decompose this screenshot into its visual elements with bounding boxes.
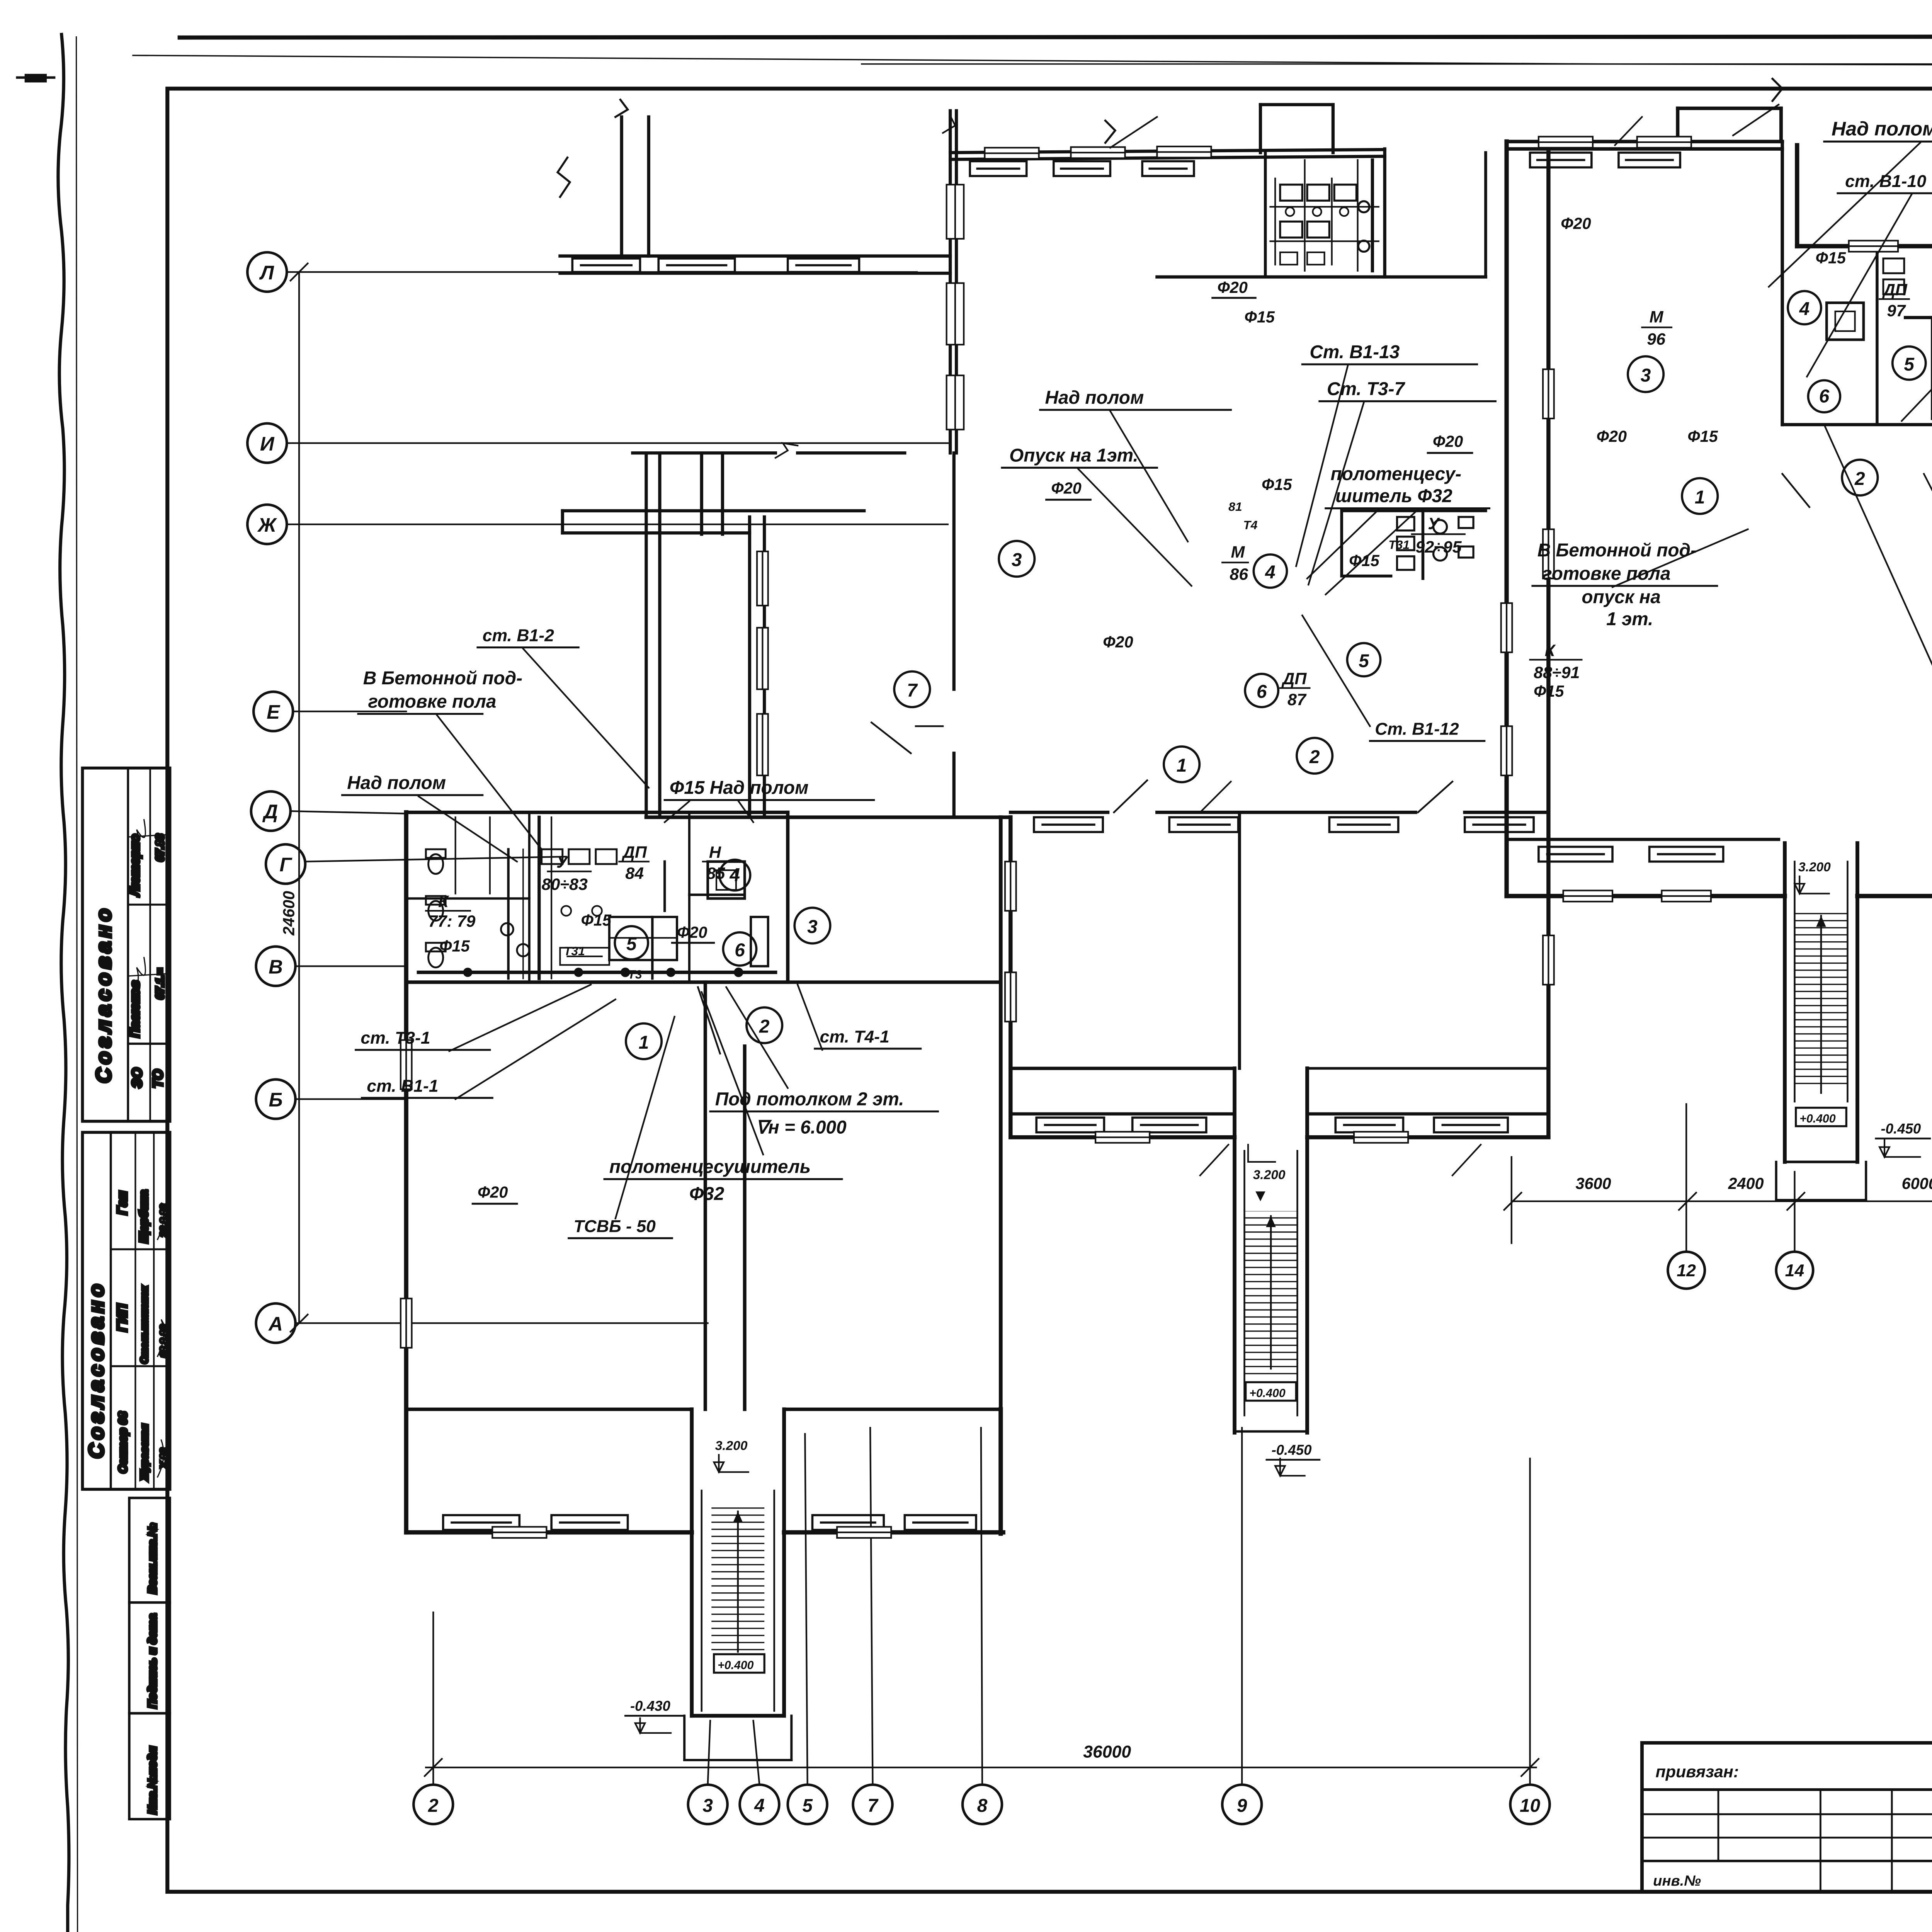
svg-text:1 эт.: 1 эт. bbox=[1606, 609, 1653, 629]
svg-text:готовке пола: готовке пола bbox=[368, 692, 496, 712]
svg-text:привязан:: привязан: bbox=[1656, 1763, 1739, 1781]
svg-text:81: 81 bbox=[1228, 500, 1242, 514]
svg-text:Ж: Ж bbox=[257, 514, 277, 536]
svg-text:∇н = 6.000: ∇н = 6.000 bbox=[756, 1117, 847, 1138]
svg-text:96: 96 bbox=[1647, 330, 1666, 349]
svg-text:Лютерно: Лютерно bbox=[128, 834, 142, 897]
svg-text:18.8.83: 18.8.83 bbox=[159, 1325, 170, 1357]
svg-text:3: 3 bbox=[702, 1796, 713, 1816]
svg-text:14: 14 bbox=[1785, 1261, 1804, 1280]
svg-text:6: 6 bbox=[1257, 682, 1267, 702]
svg-text:2: 2 bbox=[428, 1796, 439, 1816]
svg-text:36000: 36000 bbox=[1083, 1743, 1131, 1762]
svg-text:Л: Л bbox=[259, 262, 274, 284]
svg-text:Ст. В1-12: Ст. В1-12 bbox=[1375, 720, 1459, 739]
svg-text:Пасюков: Пасюков bbox=[128, 981, 142, 1038]
svg-text:24600: 24600 bbox=[280, 891, 298, 936]
svg-text:10: 10 bbox=[1520, 1796, 1541, 1816]
svg-text:-0.430: -0.430 bbox=[630, 1698, 670, 1714]
svg-text:инв.№: инв.№ bbox=[1653, 1872, 1701, 1889]
svg-text:3: 3 bbox=[1012, 550, 1022, 570]
svg-text:ЭО: ЭО bbox=[129, 1068, 145, 1088]
svg-text:Ф20: Ф20 bbox=[1217, 279, 1247, 296]
svg-text:К: К bbox=[438, 893, 449, 911]
svg-text:готовке пола: готовке пола bbox=[1542, 563, 1670, 584]
svg-text:Н: Н bbox=[709, 843, 721, 862]
svg-text:ДП: ДП bbox=[621, 843, 647, 862]
svg-text:Согласовано: Согласовано bbox=[85, 1281, 108, 1459]
svg-text:5: 5 bbox=[802, 1796, 813, 1816]
svg-text:-0.450: -0.450 bbox=[1272, 1442, 1312, 1458]
svg-text:А: А bbox=[268, 1313, 283, 1335]
svg-text:Г: Г bbox=[279, 854, 293, 876]
svg-text:М: М bbox=[1231, 543, 1245, 561]
svg-text:4: 4 bbox=[1265, 562, 1276, 583]
svg-text:Ф15: Ф15 bbox=[1262, 476, 1292, 493]
svg-text:полотенцесу-: полотенцесу- bbox=[1331, 464, 1461, 484]
svg-text:Над полом: Над полом bbox=[1832, 117, 1932, 139]
svg-text:полотенцесушитель: полотенцесушитель bbox=[609, 1157, 811, 1177]
svg-text:07.83: 07.83 bbox=[154, 834, 167, 862]
svg-text:1: 1 bbox=[1695, 487, 1705, 508]
svg-text:3: 3 bbox=[807, 917, 818, 937]
svg-text:Ф20: Ф20 bbox=[1433, 432, 1463, 450]
svg-text:ст. В1-2: ст. В1-2 bbox=[483, 626, 554, 645]
svg-text:И: И bbox=[260, 433, 275, 455]
svg-text:3: 3 bbox=[1641, 365, 1651, 386]
svg-text:8: 8 bbox=[977, 1796, 988, 1816]
svg-text:4: 4 bbox=[754, 1796, 765, 1816]
svg-text:В Бетонной под-: В Бетонной под- bbox=[363, 668, 522, 689]
svg-text:Ф15 Над полом: Ф15 Над полом bbox=[670, 778, 809, 798]
svg-text:ТО: ТО bbox=[150, 1070, 165, 1088]
svg-text:Ф15: Ф15 bbox=[581, 911, 612, 929]
svg-text:Ф20: Ф20 bbox=[1103, 633, 1133, 651]
svg-text:ст. Т4-1: ст. Т4-1 bbox=[820, 1027, 889, 1046]
svg-text:77: 79: 77: 79 bbox=[429, 912, 476, 931]
svg-text:3.200: 3.200 bbox=[715, 1439, 748, 1453]
svg-text:ДП: ДП bbox=[1281, 670, 1307, 688]
svg-text:ГИП: ГИП bbox=[115, 1304, 130, 1332]
svg-text:3.200: 3.200 bbox=[1253, 1168, 1286, 1182]
svg-text:Ф32: Ф32 bbox=[689, 1184, 724, 1204]
svg-text:5: 5 bbox=[1904, 354, 1915, 375]
svg-text:Ф15: Ф15 bbox=[1687, 428, 1718, 446]
svg-text:87: 87 bbox=[1287, 690, 1307, 709]
svg-text:Взам.инв.№: Взам.инв.№ bbox=[146, 1523, 159, 1594]
svg-text:Т31: Т31 bbox=[1388, 538, 1410, 552]
svg-text:7: 7 bbox=[867, 1796, 879, 1816]
svg-text:Ст. В1-13: Ст. В1-13 bbox=[1310, 342, 1400, 362]
svg-text:2: 2 bbox=[1854, 469, 1865, 489]
svg-text:5: 5 bbox=[626, 934, 637, 954]
svg-text:Подпись и дата: Подпись и дата bbox=[146, 1614, 159, 1708]
svg-text:Сектор 08: Сектор 08 bbox=[117, 1412, 129, 1473]
svg-text:Ф20: Ф20 bbox=[478, 1183, 508, 1201]
svg-text:У: У bbox=[1428, 515, 1440, 533]
svg-text:ст. В1-1: ст. В1-1 bbox=[367, 1077, 438, 1095]
svg-text:+0.400: +0.400 bbox=[718, 1659, 754, 1672]
svg-text:Ф15: Ф15 bbox=[1816, 249, 1846, 267]
svg-text:3600: 3600 bbox=[1575, 1175, 1611, 1192]
svg-text:92÷95: 92÷95 bbox=[1415, 538, 1462, 556]
svg-text:Ф20: Ф20 bbox=[1051, 479, 1081, 497]
svg-text:6000: 6000 bbox=[1902, 1175, 1932, 1192]
svg-text:Гап: Гап bbox=[115, 1191, 130, 1215]
svg-text:К: К bbox=[1545, 641, 1556, 660]
svg-text:84: 84 bbox=[625, 864, 644, 883]
svg-text:1: 1 bbox=[1177, 755, 1187, 776]
svg-text:6: 6 bbox=[1819, 386, 1830, 407]
svg-text:7: 7 bbox=[907, 680, 918, 701]
svg-text:85: 85 bbox=[706, 864, 725, 883]
svg-text:Инв.№подл: Инв.№подл bbox=[146, 1746, 159, 1814]
svg-text:Опуск на 1эт.: Опуск на 1эт. bbox=[1009, 446, 1138, 466]
svg-text:Ф20: Ф20 bbox=[1597, 428, 1627, 446]
svg-text:Т3: Т3 bbox=[628, 967, 642, 981]
svg-text:1: 1 bbox=[639, 1032, 649, 1053]
svg-text:Е: Е bbox=[267, 701, 281, 723]
svg-text:Т4: Т4 bbox=[1243, 518, 1257, 532]
svg-text:Под потолком 2 эт.: Под потолком 2 эт. bbox=[715, 1089, 904, 1109]
svg-text:4: 4 bbox=[1799, 299, 1810, 319]
svg-text:-0.450: -0.450 bbox=[1881, 1121, 1921, 1137]
svg-text:97: 97 bbox=[1887, 302, 1906, 320]
svg-text:ст. Т3-1: ст. Т3-1 bbox=[361, 1029, 430, 1048]
svg-text:Над полом: Над полом bbox=[347, 773, 446, 793]
svg-text:Ф15: Ф15 bbox=[1534, 682, 1564, 700]
svg-text:3.200: 3.200 bbox=[1798, 860, 1831, 874]
svg-text:Д: Д bbox=[262, 801, 278, 823]
svg-text:4: 4 bbox=[729, 865, 740, 886]
svg-text:6: 6 bbox=[735, 940, 745, 961]
svg-text:2: 2 bbox=[759, 1017, 770, 1037]
svg-text:9: 9 bbox=[1237, 1796, 1247, 1816]
svg-text:5: 5 bbox=[1359, 651, 1369, 671]
svg-text:Т31: Т31 bbox=[564, 944, 585, 958]
svg-text:ДП: ДП bbox=[1882, 281, 1908, 299]
svg-text:Х.83: Х.83 bbox=[159, 1448, 170, 1469]
svg-text:У: У bbox=[556, 853, 569, 872]
svg-text:Б: Б bbox=[269, 1089, 283, 1111]
svg-text:Щербина: Щербина bbox=[138, 1190, 150, 1243]
svg-text:07.1.=: 07.1.= bbox=[154, 968, 167, 1000]
svg-text:+0.400: +0.400 bbox=[1249, 1387, 1286, 1400]
svg-text:+0.400: +0.400 bbox=[1799, 1112, 1836, 1125]
svg-text:Ф15: Ф15 bbox=[1349, 552, 1379, 570]
svg-text:Ст. Т3-7: Ст. Т3-7 bbox=[1327, 379, 1406, 399]
svg-text:Стельмашонок: Стельмашонок bbox=[139, 1286, 150, 1364]
svg-text:Ф20: Ф20 bbox=[1561, 214, 1591, 232]
svg-text:2400: 2400 bbox=[1728, 1175, 1764, 1192]
svg-text:Ф15: Ф15 bbox=[439, 937, 470, 955]
svg-text:80÷83: 80÷83 bbox=[542, 875, 588, 894]
svg-text:шитель Ф32: шитель Ф32 bbox=[1335, 486, 1452, 507]
svg-text:2: 2 bbox=[1309, 747, 1320, 767]
svg-text:Согласовано: Согласовано bbox=[92, 905, 116, 1083]
svg-text:88÷91: 88÷91 bbox=[1534, 663, 1580, 682]
svg-text:Над полом: Над полом bbox=[1045, 388, 1144, 408]
svg-text:Журавская: Журавская bbox=[138, 1424, 150, 1481]
svg-text:86: 86 bbox=[1230, 565, 1248, 583]
svg-text:ТСВБ - 50: ТСВБ - 50 bbox=[573, 1217, 656, 1236]
svg-text:В Бетонной под-: В Бетонной под- bbox=[1537, 540, 1697, 561]
svg-text:Ф15: Ф15 bbox=[1245, 308, 1275, 326]
svg-text:Ф20: Ф20 bbox=[677, 923, 707, 941]
svg-text:1478-03: 1478-03 bbox=[1927, 1917, 1932, 1932]
svg-text:М: М bbox=[1650, 308, 1664, 327]
svg-text:12: 12 bbox=[1677, 1261, 1696, 1280]
svg-text:опуск на: опуск на bbox=[1582, 587, 1660, 607]
svg-text:В: В bbox=[269, 956, 283, 978]
